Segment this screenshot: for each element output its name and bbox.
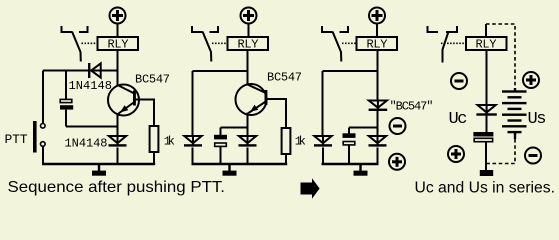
Uc minus polarity mark stage4 xyxy=(451,73,467,89)
diode D7 vertical stage4 xyxy=(476,104,496,116)
wire resistor R2 to ground rail stage2 xyxy=(285,154,287,164)
diode D4 vertical under emitter stage2 xyxy=(239,135,257,147)
svg-text:RLY: RLY xyxy=(476,38,497,52)
wire supply to relay coil stage2 xyxy=(248,24,250,38)
wire base Q2 down to resistor R2 stage2 xyxy=(285,98,287,128)
wire node A down to capacitor C1 stage1 xyxy=(65,71,67,100)
ground rail stage1 xyxy=(42,163,155,165)
relay contact stage2 xyxy=(192,26,228,62)
terminal bar bottom stage4 xyxy=(480,170,493,176)
svg-text:RLY: RLY xyxy=(367,38,388,52)
diode D1 1N4148 horizontal stage1 xyxy=(88,63,101,78)
wire left branch down stage2 xyxy=(192,71,194,136)
svg-text:"BC547": "BC547" xyxy=(390,100,434,114)
relay contact stage3 xyxy=(322,26,357,62)
wire capacitor C3 to node stage3 xyxy=(349,127,378,129)
capacitor C3 stage3 xyxy=(343,133,356,145)
wire relay coil to collector node stage1 xyxy=(117,50,119,86)
wire supply to relay coil stage3 xyxy=(376,24,378,38)
wire diode D5 to ground rail stage3 xyxy=(322,148,324,165)
supply +V stage2 xyxy=(241,8,257,24)
wire diode D6 to ground rail stage3 xyxy=(377,148,379,165)
ground rail stage2 xyxy=(192,163,288,165)
svg-text:1k: 1k xyxy=(164,135,175,149)
Us plus polarity mark stage4 xyxy=(523,72,539,88)
dashed wire relay coil to battery top stage4 xyxy=(486,24,515,88)
wire capacitor C3 to ground rail stage3 xyxy=(348,145,350,164)
wire capacitor C2 to ground rail stage2 xyxy=(220,146,222,164)
resistor R1 1k stage1 xyxy=(150,126,159,152)
wire supply to relay coil stage1 xyxy=(117,24,119,38)
svg-text:BC547: BC547 xyxy=(267,71,302,85)
wire emitter Q1 to diode D2 stage1 xyxy=(117,113,119,136)
svg-text:Uc: Uc xyxy=(449,110,468,129)
capacitor minus polarity mark stage3 xyxy=(390,118,406,134)
transistor Q1 BC547 stage1 xyxy=(108,85,154,116)
wire capacitor node to emitter stage1 xyxy=(66,126,118,128)
diode base-emitter junction of BC547 stage3 xyxy=(369,100,388,112)
wire PTT branch down stage1 xyxy=(42,71,44,124)
diode D6 vertical stage3 xyxy=(369,135,387,147)
relay contact stage4 (switched) xyxy=(428,26,467,63)
diode D3 vertical left stage2 xyxy=(184,135,202,147)
wire capacitor C3 stub stage3 xyxy=(348,128,350,134)
wire relay coil down to diode stage4 xyxy=(486,50,488,104)
wire node A to diode D1 stage1 xyxy=(43,70,89,72)
relay contact stage1 xyxy=(62,26,98,62)
resistor R2 1k stage2 xyxy=(282,128,291,154)
ground stage3 xyxy=(354,164,368,176)
svg-text:Uc and Us in series.: Uc and Us in series. xyxy=(415,180,556,197)
svg-text:RLY: RLY xyxy=(238,38,259,52)
wire BC547-diode to diode D6 stage3 xyxy=(377,111,379,136)
wire resistor R1 to ground rail stage1 xyxy=(153,152,155,164)
wire capacitor C1 to emitter node stage1 xyxy=(65,110,67,127)
dashed wire battery bottom to capacitor bottom stage4 xyxy=(487,139,515,164)
wire emitter Q2 down stage2 xyxy=(247,113,249,136)
relay coil RLY stage1 xyxy=(98,37,139,52)
wire diode D7 to capacitor C4 stage4 xyxy=(486,116,488,132)
Us minus polarity mark stage4 xyxy=(525,148,541,164)
wire diode D2 to ground rail stage1 xyxy=(117,148,119,165)
ground stage1 xyxy=(92,164,106,176)
relay coil RLY stage4 xyxy=(466,37,507,52)
svg-text:1N4148: 1N4148 xyxy=(65,136,108,150)
svg-text:1N4148: 1N4148 xyxy=(69,79,113,93)
wire relay coil to collector stage2 xyxy=(247,50,249,85)
capacitor plus polarity mark stage3 xyxy=(389,154,405,170)
wire PTT to ground rail stage1 xyxy=(42,146,44,164)
top rail stage2 xyxy=(193,70,248,72)
supply +V stage3 xyxy=(369,8,385,24)
svg-text:BC547: BC547 xyxy=(135,73,170,87)
svg-text:1k: 1k xyxy=(295,135,306,149)
capacitor C1 stage1 (hollow top plate, filled bottom plate) xyxy=(60,99,73,109)
wire diode D1 to collector node stage1 xyxy=(101,70,118,72)
Uc plus polarity mark stage4 xyxy=(448,146,464,162)
wire diode D3 to ground rail stage2 xyxy=(192,148,194,165)
svg-text:RLY: RLY xyxy=(108,38,129,52)
wire diode D4 to ground rail stage2 xyxy=(247,148,249,165)
arrow next-step symbol xyxy=(301,178,320,198)
svg-text:Us: Us xyxy=(528,110,547,129)
relay coil RLY stage2 xyxy=(228,37,269,52)
supply +V stage1 xyxy=(110,8,126,24)
ground stage2 xyxy=(223,164,237,176)
capacitor C2 stage2 xyxy=(214,135,227,147)
top rail stage3 xyxy=(323,70,378,72)
wire capacitor C4 down stage4 xyxy=(485,142,487,171)
ground rail stage3 xyxy=(322,163,379,165)
transistor Q2 BC547 stage2 xyxy=(236,84,287,115)
push-button switch PTT stage1 xyxy=(33,121,45,153)
wire base Q1 down to resistor R1 stage1 xyxy=(153,99,155,127)
svg-text:Sequence after pushing PTT.: Sequence after pushing PTT. xyxy=(8,179,226,196)
wire relay coil up stage4 xyxy=(485,24,487,37)
wire capacitor C2 to emitter node stage2 xyxy=(221,127,248,129)
diode D2 1N4148 vertical stage1 xyxy=(109,135,127,147)
capacitor C4 stage4 (charged) xyxy=(473,132,493,142)
diode D5 vertical left stage3 xyxy=(314,135,332,147)
svg-text:PTT: PTT xyxy=(5,132,28,147)
wire relay coil down stage3 xyxy=(377,50,379,100)
relay coil RLY stage3 xyxy=(357,37,398,52)
wire capacitor C2 stub stage2 xyxy=(220,128,222,136)
wire left branch down stage3 xyxy=(322,71,324,136)
battery Us stage4 xyxy=(502,88,527,139)
